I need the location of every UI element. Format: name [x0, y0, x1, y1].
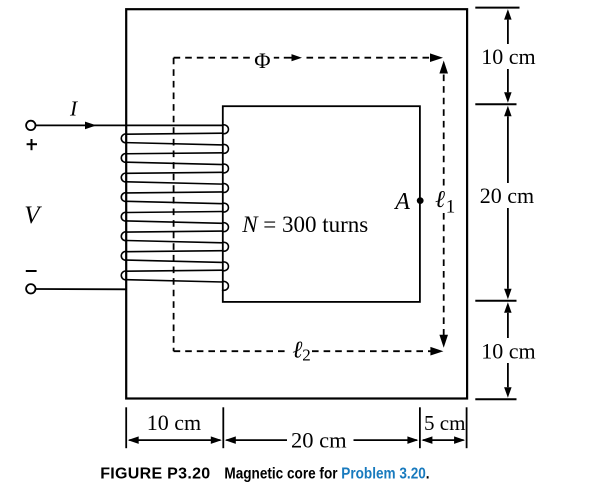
top terminal — [26, 121, 35, 130]
flux direction arrow top-right — [430, 53, 443, 62]
bottom terminal — [26, 284, 35, 293]
magnetic core outer boundary — [126, 9, 467, 398]
svg-text:10 cm: 10 cm — [147, 410, 201, 435]
svg-text:20 cm: 20 cm — [291, 427, 347, 452]
svg-text:5 cm: 5 cm — [424, 411, 465, 435]
flux path left vertical dashed wire — [173, 58, 175, 352]
svg-text:10 cm: 10 cm — [481, 339, 535, 364]
svg-text:20 cm: 20 cm — [480, 183, 534, 208]
dimension tick top (outer top) — [475, 7, 519, 9]
plus sign — [27, 139, 37, 150]
svg-text:FIGURE P3.20: FIGURE P3.20 — [100, 465, 210, 482]
bottom dimension 10 cm — [128, 410, 222, 444]
dimension tick (window bottom) — [475, 300, 516, 302]
wire from top terminal to coil — [35, 124, 222, 126]
label l1 — [435, 187, 455, 217]
svg-text:N = 300 turns: N = 300 turns — [241, 212, 368, 237]
flux path bottom dashed wire (l2) — [174, 350, 288, 352]
flux direction arrow after Phi — [274, 57, 279, 59]
svg-text:ℓ: ℓ — [292, 337, 302, 363]
witness line below right leg left — [419, 407, 421, 448]
current arrow I — [85, 122, 97, 130]
coil winding N=300 turns on left leg — [121, 125, 228, 290]
svg-text:A: A — [393, 189, 410, 215]
figure caption — [100, 465, 429, 482]
flux path right vertical dashed wire (l1) — [439, 61, 448, 74]
flux direction arrow bottom-right — [430, 347, 443, 356]
dimension tick (window top) — [475, 103, 516, 105]
minus sign — [26, 270, 37, 272]
svg-text:I: I — [69, 97, 78, 121]
right dimension 10 cm (bottom) — [481, 302, 535, 397]
right dimension 10 cm (top) — [481, 9, 535, 103]
svg-text:2: 2 — [302, 346, 311, 365]
witness line below right leg right — [466, 407, 468, 448]
flux arrow down at bottom of right leg — [439, 335, 448, 348]
magnetic core window — [223, 106, 420, 302]
witness line below left leg right — [222, 407, 224, 448]
label l2 — [292, 337, 310, 364]
wire from coil to bottom terminal — [35, 288, 126, 290]
bottom dimension 5 cm — [421, 411, 465, 444]
svg-text:ℓ: ℓ — [435, 187, 445, 213]
svg-text:1: 1 — [446, 196, 456, 217]
svg-text:Magnetic core for Problem 3.20: Magnetic core for Problem 3.20. — [224, 465, 429, 482]
svg-text:Φ: Φ — [254, 48, 270, 73]
right dimension 20 cm (middle) — [480, 106, 534, 299]
dimension tick bottom (outer bottom) — [475, 398, 516, 400]
svg-text:10 cm: 10 cm — [481, 44, 535, 69]
bottom dimension 20 cm — [225, 427, 419, 452]
witness line below left leg left — [125, 407, 127, 448]
node A dot — [417, 197, 424, 204]
flux path top dashed wire — [174, 57, 251, 59]
